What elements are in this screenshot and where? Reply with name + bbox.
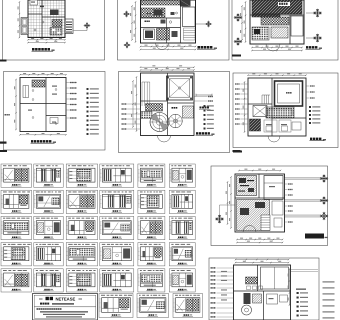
svg-text:NETEASE: NETEASE bbox=[56, 296, 76, 301]
